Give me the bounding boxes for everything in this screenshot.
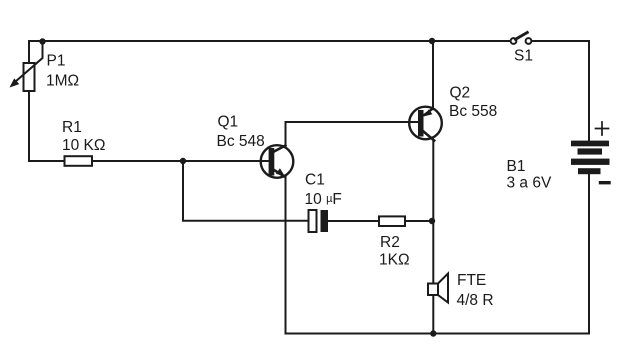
- node junction dot base node: [180, 158, 186, 164]
- svg-text:R2: R2: [380, 234, 400, 251]
- capacitor C1 right plate: [321, 210, 329, 232]
- wire right rail lower: [588, 174, 590, 334]
- wire top rail right segment: [532, 40, 589, 42]
- wire C1 to R2: [328, 220, 379, 222]
- battery plus sign: [596, 122, 609, 135]
- node junction dot R2/collector: [429, 218, 435, 224]
- svg-text:4/8 R: 4/8 R: [457, 292, 494, 309]
- wire Q2 emitter up to rail: [432, 41, 434, 109]
- wire R2 to collector node: [405, 220, 432, 222]
- potentiometer P1 wiper arrow: [10, 42, 43, 88]
- svg-text:R1: R1: [62, 119, 82, 136]
- svg-text:B1: B1: [507, 158, 526, 175]
- svg-text:3 a 6V: 3 a 6V: [507, 175, 552, 192]
- wire R1 left lead: [29, 160, 65, 162]
- wire Q1 collector up: [285, 122, 287, 145]
- svg-text:Bc 558: Bc 558: [449, 103, 497, 120]
- speaker FTE: [428, 274, 448, 303]
- capacitor C1 left plate: [309, 210, 317, 232]
- svg-text:FTE: FTE: [457, 272, 486, 289]
- svg-text:C1: C1: [305, 172, 325, 189]
- svg-text:10 KΩ: 10 KΩ: [62, 137, 105, 154]
- wire bottom rail: [286, 333, 590, 335]
- battery B1 plates: [571, 141, 610, 175]
- transistor Q1: [261, 145, 294, 178]
- node junction dot top-left: [39, 38, 45, 44]
- node junction dot bottom: [430, 330, 436, 336]
- svg-text:P1: P1: [47, 53, 66, 70]
- wire Q1 collector to Q2 base: [286, 121, 419, 123]
- svg-text:10 µF: 10 µF: [305, 191, 342, 208]
- resistor R1 body: [65, 156, 93, 166]
- wire Q1 emitter down to bottom rail: [285, 177, 287, 334]
- node junction dot top Q2: [429, 38, 435, 44]
- svg-text:Q1: Q1: [218, 114, 239, 131]
- svg-text:S1: S1: [514, 48, 533, 65]
- wire Q2 collector down: [432, 141, 434, 284]
- wire P1 top lead: [28, 41, 30, 63]
- svg-text:1MΩ: 1MΩ: [46, 73, 79, 90]
- svg-text:1KΩ: 1KΩ: [379, 252, 410, 269]
- switch S1: [511, 33, 532, 44]
- wire P1 bottom lead: [28, 91, 30, 161]
- wire speaker to bottom rail: [432, 295, 434, 334]
- wire base node down and right to C1: [183, 161, 309, 221]
- wire right rail upper: [588, 41, 590, 141]
- resistor R2 body: [379, 216, 405, 226]
- wire top rail left segment: [29, 40, 510, 42]
- potentiometer P1 body: [24, 63, 35, 91]
- wire R1 to Q1 base: [92, 160, 269, 162]
- transistor Q2: [409, 107, 442, 141]
- svg-text:Bc 548: Bc 548: [217, 133, 265, 150]
- svg-text:Q2: Q2: [450, 85, 471, 102]
- battery minus sign: [601, 181, 610, 184]
